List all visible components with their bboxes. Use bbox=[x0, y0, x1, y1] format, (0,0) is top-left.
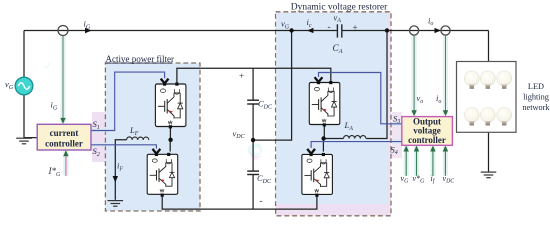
svg-text:-: - bbox=[328, 22, 331, 32]
svg-text:current: current bbox=[50, 128, 79, 138]
svg-text:controller: controller bbox=[45, 139, 83, 149]
svg-text:voltage: voltage bbox=[413, 126, 441, 136]
svg-text:lighting: lighting bbox=[523, 93, 549, 102]
svg-text:LED: LED bbox=[528, 82, 544, 91]
svg-text:controller: controller bbox=[408, 135, 446, 145]
svg-text:network: network bbox=[522, 103, 550, 112]
svg-text:Active power filter: Active power filter bbox=[106, 54, 174, 64]
svg-text:+: + bbox=[239, 71, 244, 81]
svg-text:-: - bbox=[260, 196, 263, 206]
svg-text:Dynamic voltage restorer: Dynamic voltage restorer bbox=[291, 3, 388, 13]
svg-text:+: + bbox=[353, 22, 358, 32]
